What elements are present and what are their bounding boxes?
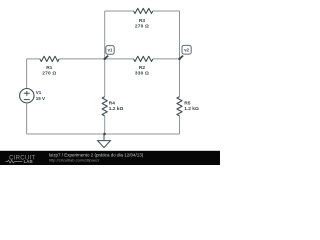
resistor R2: [134, 56, 153, 61]
wire: R2 right lead to v2 junction: [153, 58, 180, 60]
wire: top-right corner down to v2 junction: [179, 11, 181, 59]
junction dot at ground node: [103, 133, 106, 136]
svg-text:V1: V1: [36, 90, 42, 95]
wire: R5 bottom lead to bottom-right corner: [179, 116, 181, 134]
svg-text:330 Ω: 330 Ω: [135, 71, 149, 77]
wire: bottom rail: [27, 133, 180, 135]
wire: R1 right lead to v1 junction: [59, 58, 104, 60]
node v2: [178, 45, 191, 60]
resistor R1: [40, 56, 59, 61]
wire: left-top corner to R1 left lead: [27, 58, 40, 60]
ground: [98, 134, 111, 148]
wire: left rail bottom (V1 source down to bottom-left corner): [26, 103, 28, 134]
wire: v1 junction down to R4 top lead: [104, 59, 106, 97]
wire: R3 right lead to top-right corner: [153, 10, 180, 12]
svg-text:R2: R2: [139, 65, 145, 71]
resistor R5: [177, 97, 182, 116]
resistor R3: [134, 8, 153, 13]
svg-text:270 Ω: 270 Ω: [135, 23, 149, 29]
wire: top-left corner to R3 left lead: [105, 10, 134, 12]
svg-text:1.2 kΩ: 1.2 kΩ: [184, 106, 199, 112]
wire: v2 junction down to R5 top lead: [179, 59, 181, 97]
svg-text:R4: R4: [109, 100, 115, 106]
svg-text:http://circuitlab.com/c8lpaezr: http://circuitlab.com/c8lpaezr: [49, 158, 100, 163]
svg-text:1.2 kΩ: 1.2 kΩ: [109, 106, 124, 112]
svg-text:15 V: 15 V: [36, 96, 45, 101]
wire: R4 bottom lead to bottom rail: [104, 116, 106, 134]
svg-text:v2: v2: [184, 48, 189, 53]
CircuitLab logo: [6, 156, 36, 164]
wire: v1 junction up to top-left corner: [104, 11, 106, 59]
svg-text:LAB: LAB: [24, 159, 33, 164]
node v1: [104, 46, 115, 61]
resistor R4: [102, 97, 107, 116]
svg-text:270 Ω: 270 Ω: [42, 71, 56, 77]
svg-text:R3: R3: [139, 18, 145, 24]
wire: left rail top (corner down to V1 source): [26, 59, 28, 89]
svg-text:v1: v1: [108, 48, 113, 53]
footer bar: [0, 151, 220, 165]
svg-text:R5: R5: [184, 100, 190, 106]
svg-text:R1: R1: [46, 65, 52, 71]
voltage source V1: [20, 89, 34, 103]
wire: v1 junction to R2 left lead: [105, 58, 134, 60]
